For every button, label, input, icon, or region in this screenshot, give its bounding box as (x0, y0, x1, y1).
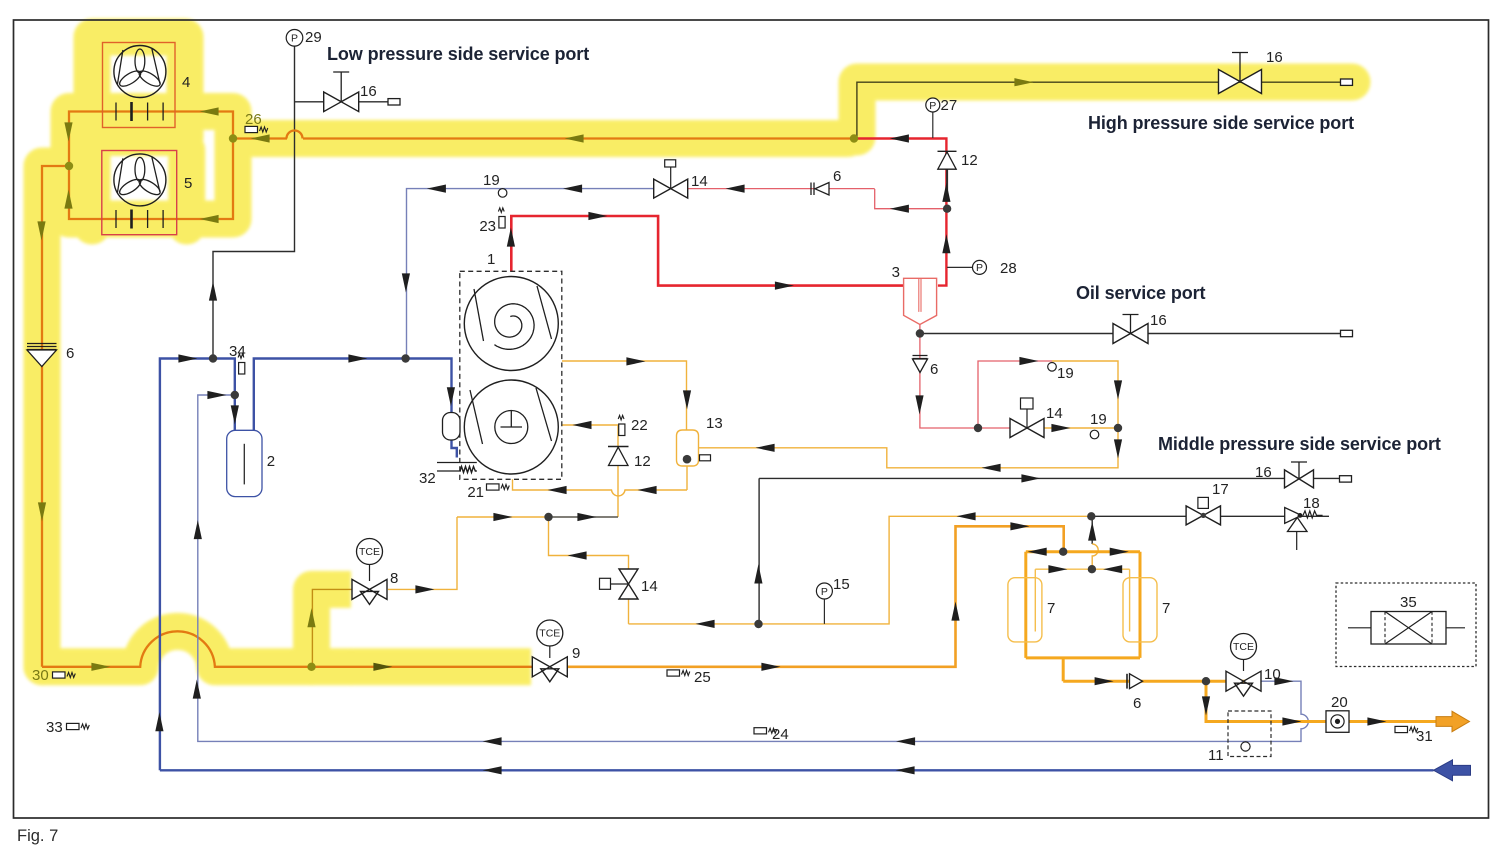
wire: TCE10 branch down and out (1206, 681, 1436, 721)
svg-text:Oil service port: Oil service port (1076, 283, 1206, 303)
wire: oil return valve14b line (978, 427, 1027, 429)
fitting 34 (229, 343, 246, 374)
wire arrow at 159.4,722.6 (155, 712, 163, 731)
orifice 19 oil return (1090, 411, 1107, 439)
wire: oil service line (920, 333, 1341, 335)
flow arrows (37, 78, 1386, 774)
wire arrow at 597,216 (588, 212, 607, 220)
wire: HP service line (857, 82, 1345, 138)
svg-text:24: 24 (772, 726, 789, 743)
wire: valve14a to HP riser thin red (688, 189, 947, 209)
solenoid valve 14 (economizer, vertical) (600, 569, 658, 599)
wire: hot gas return thick blue (160, 769, 1434, 771)
wire arrow at 42,511 (38, 502, 46, 521)
wire: evap outlet to TCE10 (1226, 680, 1261, 683)
svg-text:TCE: TCE (1233, 641, 1254, 653)
svg-text:33: 33 (46, 719, 63, 736)
wire arrow at 586,517 (577, 513, 596, 521)
node oil return tee (974, 424, 982, 432)
svg-text:P: P (976, 262, 983, 274)
sensor box 11 (1208, 711, 1271, 764)
wire: oil return bypass (978, 361, 1052, 428)
TCE expansion valve 8 (352, 539, 398, 605)
wire arrow at 1283,681.2 (1274, 677, 1293, 685)
svg-text:18: 18 (1303, 495, 1320, 512)
wire arrow at 493,770.3 (483, 766, 502, 774)
node oil line junction (1114, 424, 1122, 432)
wire arrow at 357,358.5 (348, 354, 367, 362)
node accumulator inlet tee (231, 391, 239, 399)
wire arrow at 1030,478.4 (1021, 474, 1040, 482)
wire arrow at 946.4,244.6 (942, 234, 950, 253)
wire arrow at 1113.6,569.2 (1103, 565, 1122, 573)
TCE expansion valve 9 (532, 620, 580, 682)
svg-text:6: 6 (1133, 695, 1141, 712)
wire arrow at 405.9,282 (402, 273, 410, 292)
LP service valve 16 (324, 72, 400, 112)
node evap suction junction (1087, 512, 1095, 520)
svg-text:19: 19 (1057, 365, 1074, 382)
svg-text:16: 16 (360, 83, 377, 100)
svg-text:7: 7 (1047, 600, 1055, 617)
wire arrow at 437.3,188.6 (427, 185, 446, 193)
orifice 19 on equalizer line (483, 172, 507, 197)
wire arrow at 575,138.5 (565, 134, 584, 142)
svg-text:14: 14 (1046, 405, 1063, 422)
svg-text:4: 4 (182, 74, 190, 91)
wire: 19 equalizer line (407, 189, 654, 359)
wire: TCE8 outlet to economizer (388, 517, 457, 589)
wire arrow at 906.5,741.4 (896, 737, 915, 745)
wire: P15 stem (823, 599, 825, 624)
wire arrow at 955.5,612 (951, 602, 959, 621)
svg-text:TCE: TCE (359, 546, 380, 558)
node suction gauge tee (209, 354, 217, 362)
svg-text:28: 28 (1000, 260, 1017, 277)
wire arrow at 906,770.3 (896, 766, 915, 774)
wire arrow at 635,361.4 (626, 357, 645, 365)
svg-text:12: 12 (634, 453, 651, 470)
wire arrow at 1060,428 (1051, 424, 1070, 432)
wire: evaporator feed manifold thick (1026, 552, 1226, 682)
inlet big blue arrow (1434, 760, 1471, 781)
wire arrow at 582.9,425 (572, 421, 591, 429)
wire arrow at 992,467.8 (982, 464, 1001, 472)
wire arrow at 736,188.6 (726, 185, 745, 193)
svg-text:P: P (821, 586, 828, 598)
svg-text:19: 19 (483, 172, 500, 189)
fitting 31 (1395, 726, 1433, 745)
check valve 6 (oil bypass, points left) (811, 168, 841, 195)
svg-text:14: 14 (641, 578, 658, 595)
svg-text:13: 13 (706, 415, 723, 432)
svg-text:P: P (929, 100, 936, 112)
wire arrow at 558,490 (548, 486, 567, 494)
outlet big orange arrow (1436, 711, 1470, 731)
wire: LP gauge line P29 down to suction (213, 46, 295, 359)
pressure gauge P27 (926, 97, 957, 114)
wire: evaporator suction header black (1091, 515, 1329, 517)
svg-text:Low pressure side service port: Low pressure side service port (327, 44, 589, 64)
wire arrow at 1092.2,532 (1088, 522, 1096, 541)
svg-text:8: 8 (390, 570, 398, 587)
svg-text:6: 6 (66, 345, 74, 362)
wire arrow at 1103.2,681.2 (1095, 677, 1114, 685)
compressor motor circle (464, 380, 558, 474)
node equalizer tee (401, 354, 409, 362)
wire arrow at 766,447.8 (756, 444, 775, 452)
svg-text:16: 16 (1266, 49, 1283, 66)
wire arrow at 758.4,574.9 (754, 564, 762, 583)
accumulator 2 (227, 430, 275, 496)
flow device 20 (1326, 694, 1349, 732)
wire: P28 stem (947, 266, 972, 268)
svg-text:17: 17 (1212, 481, 1229, 498)
wire: evap return thin blue (198, 395, 1309, 741)
wire: oil to vessel 13 (699, 428, 1118, 468)
node liquid line tee to valve 8 (307, 663, 315, 671)
wire arrow at 900.3,208.7 (890, 205, 909, 213)
svg-text:16: 16 (1150, 312, 1167, 329)
wire: compressor injection port line (562, 424, 563, 426)
wire arrow at 770,666.8 (761, 663, 780, 671)
fitting 26 (245, 111, 268, 133)
wire arrow at 450.9,395.8 (447, 387, 455, 406)
wire: condenser supply orange main (233, 137, 854, 139)
wire: economizer injection header (457, 425, 618, 517)
svg-text:11: 11 (1208, 747, 1224, 764)
svg-text:5: 5 (184, 175, 192, 192)
wire: P27 stem (932, 112, 934, 139)
TCE expansion valve 10 (1226, 634, 1281, 697)
wire arrow at 687,399 (683, 390, 691, 409)
svg-text:High pressure side service por: High pressure side service port (1088, 113, 1354, 133)
oil separator 3 (892, 264, 937, 325)
wire arrow at 68.5,200 (64, 190, 72, 209)
orifice 19 oil bypass (1048, 363, 1074, 383)
evaporator 7 right (1123, 578, 1170, 642)
svg-text:25: 25 (694, 669, 711, 686)
svg-text:31: 31 (1416, 728, 1433, 745)
wire: oil drain separator down (920, 325, 978, 429)
fitting 33 (46, 719, 89, 736)
wire: HP riser red (854, 139, 946, 286)
wire: suction main blue (160, 359, 457, 771)
svg-text:15: 15 (833, 576, 850, 593)
node evap outlet tee (1202, 677, 1210, 685)
node MP drop junction (754, 620, 762, 628)
wire arrow at 648,490 (638, 486, 657, 494)
MP service valve 16 (1255, 462, 1352, 488)
bridge arc over P29 line (287, 131, 303, 139)
wire arrow at 967,516.3 (957, 512, 976, 520)
wire arrow at 382,666.8 (373, 663, 392, 671)
wire arrow at 41.5,230 (37, 221, 45, 240)
wire arrow at 1291,721.5 (1282, 717, 1301, 725)
wire arrow at 1023,82.2 (1014, 78, 1033, 86)
svg-text:3: 3 (892, 264, 900, 281)
solenoid valve 14 (hot gas, top) (654, 160, 708, 198)
wire arrow at 210,111.5 (200, 107, 219, 115)
svg-text:14: 14 (691, 173, 708, 190)
svg-text:29: 29 (305, 29, 322, 46)
wire arrow at 210,219 (200, 215, 219, 223)
wire arrow at 706,623.9 (696, 620, 715, 628)
wire arrow at 573.5,188.6 (563, 185, 582, 193)
wire: bottom liquid line with crossover arch (42, 631, 533, 666)
svg-text:Fig. 7: Fig. 7 (17, 827, 58, 845)
evaporator 7 left (1008, 578, 1055, 642)
wire: dip tube manifold (1035, 569, 1129, 631)
fitting 25 (667, 669, 711, 686)
wire arrow at 1118,389 (1114, 380, 1122, 399)
svg-text:35: 35 (1400, 594, 1417, 611)
svg-text:26: 26 (245, 111, 262, 128)
wire arrow at 783.5,285.6 (775, 282, 794, 290)
node dip tube junction (1088, 565, 1096, 573)
wire: LP service branch (295, 101, 389, 103)
wire: TCE8 branch (312, 589, 352, 666)
wire arrow at 919.5,404 (915, 395, 923, 414)
suction muffler on compressor inlet (443, 413, 461, 441)
wire arrow at 1206,705 (1202, 696, 1210, 715)
svg-text:2: 2 (267, 453, 275, 470)
node discharge gauge tee (943, 205, 951, 213)
wire arrow at 187,358.5 (178, 354, 197, 362)
wire: economizer valve14 branch (549, 516, 1092, 624)
fitting 30 (32, 667, 75, 684)
check valve 6 (separator drain, points down) (913, 356, 939, 379)
svg-text:27: 27 (941, 97, 958, 114)
svg-text:19: 19 (1090, 411, 1107, 428)
wire arrow at 100,666.8 (91, 663, 110, 671)
svg-text:7: 7 (1162, 600, 1170, 617)
fan unit 4 (103, 43, 191, 128)
check valve 6 (evap outlet, points right) (1127, 674, 1143, 712)
fan unit 5 (102, 151, 193, 235)
svg-text:22: 22 (631, 417, 648, 434)
node evap feed junction (1059, 548, 1067, 556)
relief valve 18 (1285, 495, 1323, 550)
solenoid valve 14 (oil return) (1010, 398, 1063, 438)
node fan supply junction (229, 134, 237, 142)
wire arrow at 502,517 (493, 513, 512, 521)
pressure gauge P28 (973, 260, 1017, 277)
oil reservoir vessel 13 (677, 415, 723, 466)
wire arrow at 493,741.4 (483, 737, 502, 745)
wire arrow at 311.5,618.6 (307, 608, 315, 627)
injection check valve 12 (mid) (608, 447, 651, 471)
wire arrow at 578,555.5 (568, 551, 587, 559)
wire: liquid line valve9 to evaporator riser (567, 526, 1064, 667)
svg-text:21: 21 (467, 484, 484, 501)
HP service valve 16 (1219, 49, 1353, 94)
regulating valve 17 (1186, 481, 1229, 525)
wire arrow at 216,395 (207, 391, 226, 399)
wire: discharge red (511, 216, 903, 286)
pressure gauge P15 (816, 576, 849, 599)
wire arrow at 1028,361 (1019, 357, 1038, 365)
wire: compressor to vessel 13 (562, 361, 687, 430)
node oil separator outlet tee (916, 329, 924, 337)
node economizer junction (544, 513, 552, 521)
strainer filter 6 left (27, 344, 74, 367)
wire arrow at 900.3,138.5 (890, 134, 909, 142)
discharge check valve 12 (top) (938, 151, 978, 169)
svg-text:20: 20 (1331, 694, 1348, 711)
wire arrow at 197.8,530.5 (194, 520, 202, 539)
svg-text:TCE: TCE (539, 627, 560, 639)
wire: fan circuit loop (42, 112, 233, 667)
oil service valve 16 (1113, 312, 1353, 344)
wire arrow at 1118,448 (1114, 439, 1122, 458)
wire arrow at 196.8,690 (193, 680, 201, 699)
svg-text:P: P (291, 33, 298, 45)
svg-text:32: 32 (419, 470, 436, 487)
wire: vessel13 bottom to compressor suction side with bridge (513, 466, 688, 496)
wire arrow at 1038.1,551.7 (1028, 548, 1047, 556)
svg-text:9: 9 (572, 645, 580, 662)
fitting 23 (479, 208, 505, 235)
wire arrow at 1118.3,551.7 (1110, 548, 1129, 556)
fitting 21 (467, 484, 509, 501)
svg-text:23: 23 (479, 218, 496, 235)
wire arrow at 68.5,131 (64, 122, 72, 141)
svg-text:34: 34 (229, 343, 246, 360)
pressure gauge P29 (286, 29, 321, 46)
wire arrow at 213,292 (209, 282, 217, 301)
wire arrow at 1019,526.3 (1010, 522, 1029, 530)
svg-text:6: 6 (930, 361, 938, 378)
wire: suction drop to dip-tube manifold with jog (1092, 544, 1098, 569)
svg-text:12: 12 (961, 152, 978, 169)
fitting 22 (618, 415, 647, 435)
svg-text:16: 16 (1255, 464, 1272, 481)
compressor U1 (tandem scroll) (460, 251, 562, 479)
wire arrow at 234.8,414 (231, 405, 239, 424)
svg-text:6: 6 (833, 168, 841, 185)
filter drier 35 (legend box) (1336, 583, 1476, 667)
crankcase heater 32 (419, 463, 477, 488)
node fan return junction (65, 162, 73, 170)
wire arrow at 424,589.4 (415, 585, 434, 593)
node HP service tee (850, 134, 858, 142)
wire arrow at 510.9,238 (507, 228, 515, 247)
wire arrow at 1376,721.5 (1367, 717, 1386, 725)
wire arrow at 1057,569.2 (1048, 565, 1067, 573)
wire arrow at 261,138.5 (251, 134, 270, 142)
svg-text:Middle pressure side service p: Middle pressure side service port (1158, 434, 1441, 454)
wire arrow at 946.4,193.3 (942, 183, 950, 202)
wire: MP service line (759, 478, 1340, 624)
fitting 24 (754, 726, 789, 743)
svg-text:1: 1 (487, 251, 495, 268)
svg-text:30: 30 (32, 667, 49, 684)
